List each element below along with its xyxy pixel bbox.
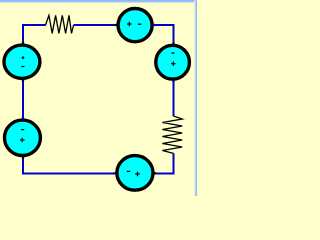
battery V5 [114, 156, 156, 191]
resistor R1 [46, 15, 74, 33]
battery V4 [5, 117, 41, 158]
battery V2 [115, 9, 155, 42]
wire [173, 80, 175, 116]
wire [23, 25, 46, 44]
battery V1 [4, 42, 40, 81]
wire [155, 153, 174, 173]
wire [153, 25, 173, 44]
resistor R2 [162, 116, 182, 153]
wire [23, 157, 115, 174]
wire [22, 80, 24, 119]
battery V3 [156, 42, 190, 82]
wire [74, 24, 118, 26]
